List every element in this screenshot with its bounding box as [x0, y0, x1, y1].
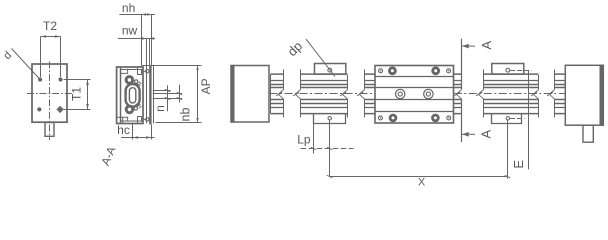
small circle top right	[146, 70, 149, 73]
screw mid right	[424, 89, 433, 98]
label dp with leader	[284, 38, 335, 76]
grease nipple circle	[506, 68, 510, 72]
dimension T2	[41, 19, 61, 77]
grease nipple circle	[328, 68, 332, 72]
track blob top	[135, 80, 138, 83]
bottom tab	[583, 125, 593, 142]
rail centerline left part	[270, 93, 375, 95]
bottom plate	[314, 114, 346, 124]
nipple plate on top	[492, 64, 524, 75]
svg-text:Lp: Lp	[297, 132, 311, 146]
svg-text:hc: hc	[117, 123, 130, 137]
screw big TL	[388, 66, 397, 75]
label d with leader	[1, 49, 40, 80]
svg-text:T2: T2	[43, 19, 57, 33]
inner top line	[121, 69, 143, 71]
dimension X	[327, 120, 511, 189]
svg-text:n: n	[153, 105, 167, 112]
vertical centerline	[49, 62, 51, 141]
svg-text:E: E	[511, 160, 526, 169]
slot pocket bottom-left	[138, 117, 142, 124]
rail right verticals	[146, 66, 148, 124]
rail run E with carriage 2	[476, 64, 538, 124]
leader dash bottom hole	[510, 118, 525, 120]
leader dash nipple to E line	[510, 70, 531, 72]
bottom tab	[45, 123, 54, 137]
bottom plate	[492, 114, 522, 124]
screw small BR	[447, 116, 451, 120]
dimension n	[153, 85, 182, 112]
dimension nw	[118, 24, 155, 66]
right end block	[565, 65, 603, 143]
inner bottom line	[121, 120, 143, 122]
svg-text:A: A	[479, 130, 494, 139]
svg-text:AP: AP	[199, 78, 213, 94]
dimension T1	[64, 80, 91, 110]
dimension AP	[196, 66, 213, 123]
rail top edge line	[142, 65, 202, 67]
center drive block	[375, 66, 454, 124]
svg-text:A: A	[479, 41, 494, 50]
svg-text:nb: nb	[178, 108, 192, 122]
hole top-right	[58, 77, 62, 81]
dimension nb	[153, 85, 193, 122]
hole top-left	[38, 77, 42, 81]
svg-text:nw: nw	[122, 24, 138, 38]
carriage plate top view	[27, 62, 73, 141]
section outer block	[117, 67, 143, 124]
svg-text:T1: T1	[70, 87, 84, 101]
rail run F	[547, 70, 565, 118]
rail run B with carriage 1	[293, 64, 347, 124]
svg-text:nh: nh	[122, 1, 135, 15]
central stadium inner	[129, 88, 135, 103]
rail bottom ext line	[156, 122, 202, 124]
stub lines to small circles	[143, 71, 145, 119]
dimension hc	[117, 123, 154, 140]
ball top	[126, 77, 133, 84]
bottom hole	[506, 117, 509, 120]
dimension Lp	[297, 114, 353, 154]
slot pocket top-left	[138, 67, 142, 75]
break edge	[283, 70, 285, 118]
rail run D	[454, 74, 462, 114]
screw small TL	[379, 69, 383, 73]
top-left notch	[120, 72, 128, 74]
track blob bottom	[134, 107, 137, 110]
hole bottom-left	[37, 107, 41, 111]
small circle bottom right	[146, 118, 149, 121]
bottom arrow	[462, 133, 475, 135]
screw big BL	[389, 114, 398, 123]
inner wall stubs	[127, 69, 129, 121]
block body	[32, 64, 67, 122]
rail centerline right part	[454, 93, 566, 95]
screw big TR	[431, 66, 440, 75]
dimension nh	[119, 1, 154, 66]
inner left wall line	[120, 67, 122, 124]
left end block	[231, 65, 270, 123]
track groove bottom	[135, 103, 141, 108]
dimension E	[511, 71, 529, 170]
horizontal centerline	[27, 93, 73, 95]
screw big BR	[431, 114, 440, 123]
nipple plate on top	[315, 64, 346, 75]
ball bottom	[126, 106, 133, 113]
screw mid left	[396, 89, 405, 98]
track groove top	[135, 82, 141, 87]
rail run C	[357, 70, 375, 118]
screw small BL	[378, 116, 382, 120]
svg-text:X: X	[418, 177, 426, 189]
section line A-A	[454, 39, 494, 142]
top arrow	[462, 45, 475, 47]
hole bottom-right diamond	[56, 106, 63, 113]
rail run A	[271, 70, 284, 118]
bottom hole	[328, 117, 331, 120]
screw small TR	[447, 69, 451, 73]
central stadium outer	[126, 84, 140, 107]
break zigzag	[276, 90, 283, 99]
bottom-left notch	[117, 117, 128, 123]
